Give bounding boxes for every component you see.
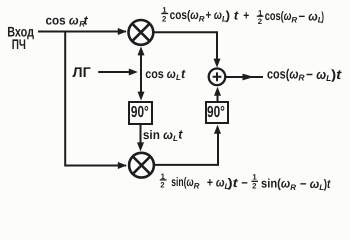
svg-text:2: 2 [252,181,257,190]
svg-text:): ) [321,10,324,24]
svg-text:sin(ω: sin(ω [171,175,194,189]
svg-text:sin(ω: sin(ω [261,177,291,191]
svg-text:− ω: − ω [299,9,319,23]
svg-text:R: R [298,73,305,83]
svg-text:cos ω: cos ω [145,67,176,81]
svg-text:cos ω: cos ω [46,14,80,28]
svg-text:90°: 90° [131,104,149,121]
svg-text:− ω: − ω [300,177,320,191]
svg-text:− ω: − ω [306,67,326,82]
svg-text:sin ω: sin ω [143,128,174,142]
svg-text:+ ω: + ω [206,8,223,22]
svg-text:R: R [194,181,200,190]
svg-text:−: − [241,176,248,190]
svg-text:)t: )t [228,176,239,190]
svg-text:R: R [199,14,205,23]
svg-text:)t: )t [331,67,342,82]
svg-text:2: 2 [162,14,167,23]
svg-text:cos(ω: cos(ω [267,67,298,82]
svg-text:R: R [290,183,296,192]
svg-text:2: 2 [160,180,165,189]
svg-text:ПЧ: ПЧ [12,36,26,52]
svg-text:ЛГ: ЛГ [73,64,91,80]
svg-text:R: R [291,15,297,24]
svg-text:90°: 90° [207,104,225,121]
svg-text:1: 1 [252,173,257,182]
svg-text:cos(ω: cos(ω [265,9,292,23]
svg-text:cos(ω: cos(ω [170,8,200,22]
svg-text:L: L [173,134,178,143]
svg-text:+: + [243,9,249,23]
svg-text:)t: )t [324,177,331,191]
svg-text:) t: ) t [226,8,239,22]
svg-text:2: 2 [258,17,263,26]
svg-text:+ ω: + ω [207,176,225,190]
